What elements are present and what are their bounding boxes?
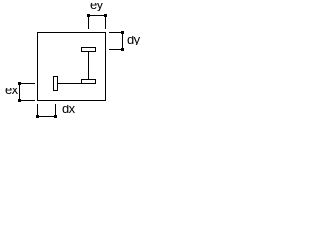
dimension ex square top [18, 82, 21, 85]
pad P2 (bottom horizontal pad) [81, 79, 96, 84]
label dy [127, 36, 141, 45]
label ex [5, 88, 18, 95]
label dx [62, 105, 76, 114]
dimension ey extension right [105, 17, 106, 29]
package outline box [37, 32, 106, 101]
dimension dx line [37, 116, 56, 117]
dimension dy line [122, 32, 123, 50]
dimension ex extension bottom [20, 100, 35, 101]
dimension dx extension right [55, 104, 56, 117]
wire stem between P1 and P2 [88, 52, 89, 79]
dimension dy square bottom [121, 48, 124, 51]
dimension dx extension left [37, 104, 38, 117]
dimension ey square left [87, 14, 90, 17]
dimension ey square right [104, 14, 107, 17]
dimension dy extension bottom [109, 49, 124, 50]
dimension dy extension top [109, 32, 124, 33]
dimension dx square right [54, 115, 57, 118]
pad P1 (top horizontal pad) [81, 47, 96, 52]
dimension dx square left [36, 115, 39, 118]
label ey [90, 3, 104, 11]
wire connector P3 to P2 [58, 83, 81, 84]
dimension ex square bottom [18, 99, 21, 102]
dimension ex line [19, 83, 20, 101]
dimension ey line [87, 15, 107, 16]
dimension ey extension left [88, 17, 89, 29]
dimension dy square top [121, 31, 124, 34]
dimension ex extension top [20, 83, 35, 84]
pad P3 (left vertical pad) [53, 76, 58, 91]
